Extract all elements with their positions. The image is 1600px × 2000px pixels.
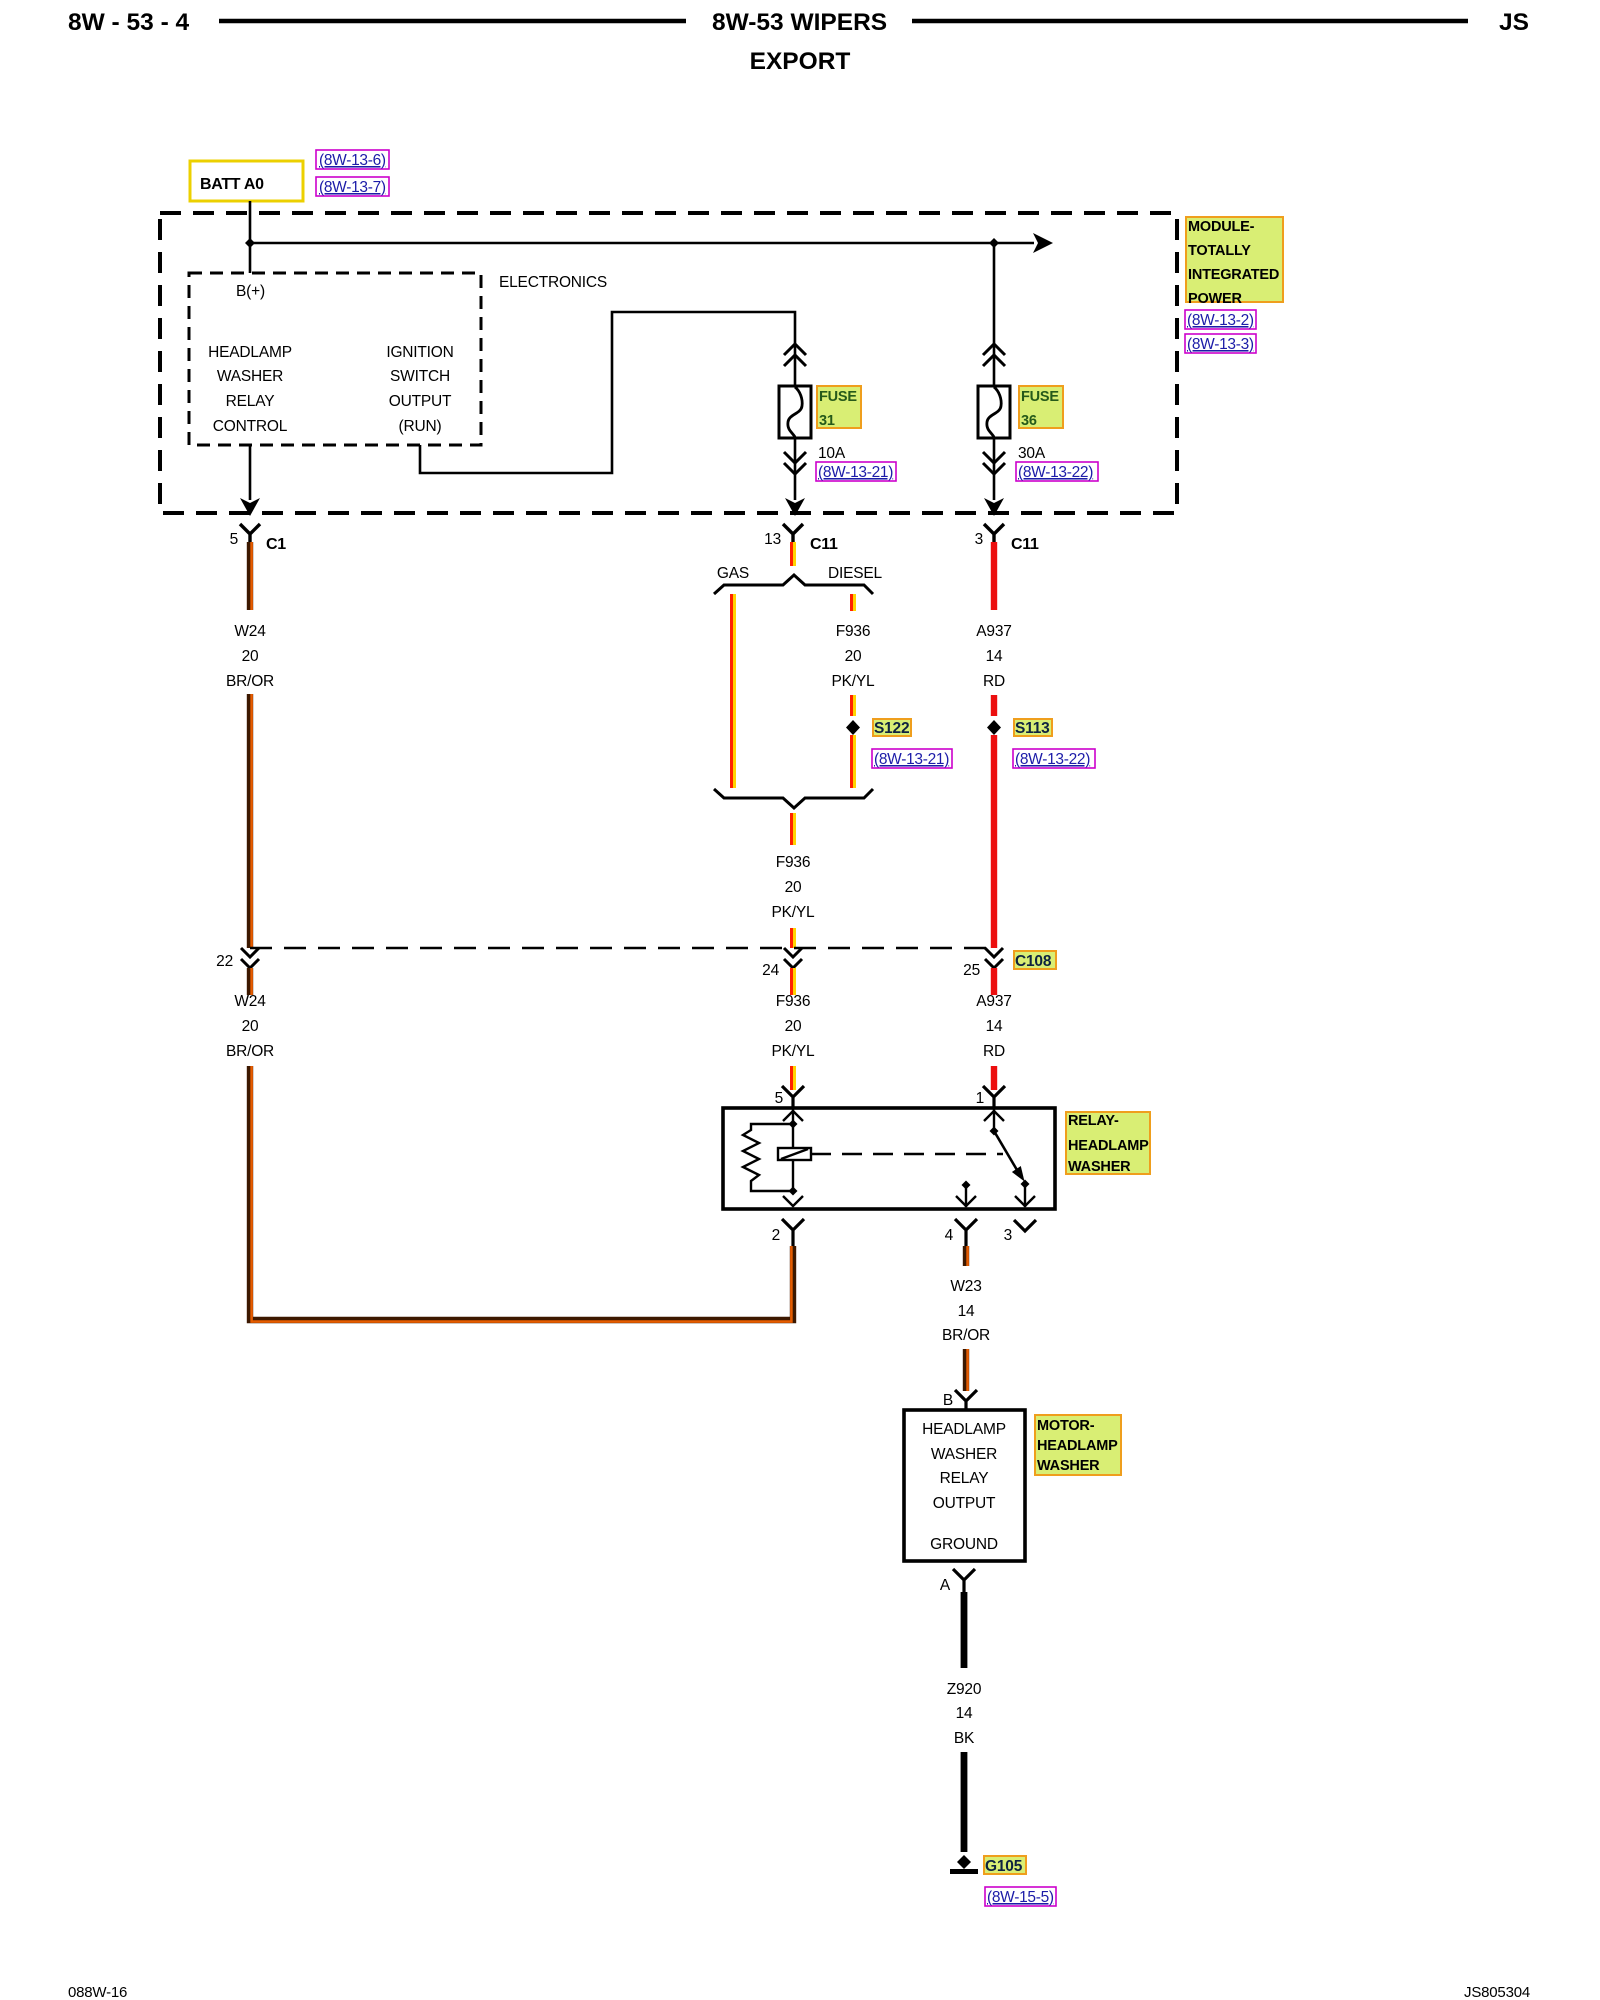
svg-text:(8W-13-21): (8W-13-21) xyxy=(874,751,949,768)
footer drawing number xyxy=(1464,1984,1530,2000)
relay pin 1 connector xyxy=(976,1086,1005,1108)
svg-text:PK/YL: PK/YL xyxy=(772,1043,816,1060)
wire gas branch xyxy=(732,594,735,788)
svg-text:A937: A937 xyxy=(976,623,1011,640)
connector C108 pin 25 xyxy=(963,948,1003,979)
svg-text:WASHER: WASHER xyxy=(931,1446,997,1463)
svg-text:PK/YL: PK/YL xyxy=(772,904,816,921)
wire F936 below merge xyxy=(792,813,795,845)
brace split gas/diesel xyxy=(714,575,873,594)
svg-text:ELECTRONICS: ELECTRONICS xyxy=(499,274,607,291)
svg-text:30A: 30A xyxy=(1018,445,1046,462)
svg-text:INTEGRATED: INTEGRATED xyxy=(1188,267,1279,283)
svg-text:20: 20 xyxy=(785,879,802,896)
relay pin3 internal wire xyxy=(1015,1184,1035,1207)
relay pin 3 connector xyxy=(1004,1220,1036,1244)
relay pin 4 connector xyxy=(945,1219,977,1246)
svg-text:088W-16: 088W-16 xyxy=(68,1984,127,2000)
wire ignition switch output to fuse 31 xyxy=(420,312,795,473)
label A937 14 RD upper xyxy=(976,623,1011,690)
svg-text:GAS: GAS xyxy=(717,565,749,582)
svg-text:1: 1 xyxy=(976,1090,984,1107)
svg-text:(RUN): (RUN) xyxy=(399,418,442,435)
header rule left xyxy=(219,19,686,24)
node relay pin3 xyxy=(1021,1180,1030,1189)
label C108 xyxy=(1014,951,1056,970)
label A937 14 RD lower xyxy=(976,993,1011,1060)
label F936 20 PK/YL mid xyxy=(772,854,816,921)
svg-text:(8W-13-21): (8W-13-21) xyxy=(818,464,893,481)
arrowhead fuse31 exit xyxy=(785,498,805,516)
svg-text:OUTPUT: OUTPUT xyxy=(933,1495,996,1512)
header title right xyxy=(1499,9,1529,36)
relay coil branch wire xyxy=(783,1108,803,1206)
svg-text:A937: A937 xyxy=(976,993,1011,1010)
svg-text:WASHER: WASHER xyxy=(1068,1159,1131,1175)
wire A937 long segment xyxy=(991,735,997,948)
motor headlamp washer box xyxy=(904,1410,1025,1561)
svg-text:PK/YL: PK/YL xyxy=(832,673,876,690)
svg-text:F936: F936 xyxy=(776,854,811,871)
wire to fuse 36 xyxy=(993,243,996,386)
svg-text:20: 20 xyxy=(242,648,259,665)
wire Z920 upper xyxy=(961,1592,968,1668)
node battery bus junction xyxy=(245,238,255,248)
svg-text:5: 5 xyxy=(230,531,238,548)
svg-text:3: 3 xyxy=(975,531,983,548)
svg-text:20: 20 xyxy=(845,648,862,665)
wire battery bus arrow xyxy=(250,233,1053,253)
node relay coil top xyxy=(789,1120,798,1129)
svg-text:W24: W24 xyxy=(234,623,266,640)
link 8W-13-7 xyxy=(316,177,389,196)
wire W23 lower xyxy=(966,1349,968,1391)
connector C108 dashed line xyxy=(250,947,997,950)
label FUSE 31 xyxy=(817,386,861,429)
link 8W-13-22 xyxy=(1016,462,1098,481)
svg-text:5: 5 xyxy=(775,1090,783,1107)
wire fuse 31 lower xyxy=(794,438,797,500)
svg-text:B: B xyxy=(943,1392,953,1409)
svg-text:C11: C11 xyxy=(1011,536,1039,553)
electronics dashed box xyxy=(189,273,481,445)
wire A937 below C108 xyxy=(991,968,997,995)
wire W23 upper xyxy=(966,1246,968,1266)
svg-text:F936: F936 xyxy=(776,993,811,1010)
wire Z920 lower xyxy=(961,1752,968,1852)
svg-text:RELAY: RELAY xyxy=(226,393,275,410)
svg-text:10A: 10A xyxy=(818,445,846,462)
svg-text:FUSE: FUSE xyxy=(1021,389,1059,405)
label headlamp washer relay control xyxy=(208,344,292,435)
wire diesel branch stub xyxy=(852,594,855,611)
wire F936 to relay pin 5 xyxy=(792,1066,795,1090)
relay pin 2 connector xyxy=(772,1219,804,1246)
relay switch common wire xyxy=(984,1108,1004,1131)
header subtitle xyxy=(750,48,851,75)
svg-text:BK: BK xyxy=(954,1730,975,1747)
svg-text:8W-53 WIPERS: 8W-53 WIPERS xyxy=(712,9,887,36)
svg-text:3: 3 xyxy=(1004,1227,1012,1244)
link 8W-13-6 xyxy=(316,150,389,169)
svg-text:(8W-13-7): (8W-13-7) xyxy=(319,179,386,196)
wire A937 above splice xyxy=(991,695,997,716)
splice S122 xyxy=(846,719,911,737)
splice S113 xyxy=(987,719,1052,737)
header title left xyxy=(68,9,190,36)
svg-text:14: 14 xyxy=(956,1705,973,1722)
svg-text:C11: C11 xyxy=(810,536,838,553)
connector C11 pin 3 xyxy=(975,524,1039,553)
wire W24 upper segment xyxy=(250,542,252,610)
svg-text:2: 2 xyxy=(772,1227,780,1244)
wire A937 to relay pin 1 xyxy=(991,1066,997,1090)
relay headlamp washer box xyxy=(723,1108,1055,1209)
footer sheet number xyxy=(68,1984,127,2000)
label ELECTRONICS xyxy=(499,274,607,291)
relay pin 5 connector xyxy=(775,1086,804,1108)
wire A937 upper segment xyxy=(991,542,997,610)
header title center xyxy=(712,9,887,36)
svg-text:(8W-15-5): (8W-15-5) xyxy=(987,1889,1054,1906)
label Z920 14 BK xyxy=(947,1681,982,1747)
label W24 20 BR/OR lower xyxy=(226,993,274,1060)
resistor relay suppression xyxy=(743,1124,793,1191)
label W23 14 BR/OR xyxy=(942,1278,990,1344)
node fuse36 branch junction xyxy=(989,238,999,248)
svg-text:DIESEL: DIESEL xyxy=(828,565,883,582)
svg-text:JS805304: JS805304 xyxy=(1464,1984,1530,2000)
connector C108 pin 24 xyxy=(762,948,802,979)
relay coil symbol xyxy=(778,1148,811,1160)
svg-text:20: 20 xyxy=(242,1018,259,1035)
fuse 36 top chevrons xyxy=(983,344,1005,366)
wire diesel below splice xyxy=(852,735,855,788)
svg-text:W23: W23 xyxy=(950,1278,981,1295)
svg-text:8W - 53 - 4: 8W - 53 - 4 xyxy=(68,9,190,36)
label F936 20 PK/YL lower xyxy=(772,993,816,1060)
svg-text:BR/OR: BR/OR xyxy=(226,673,274,690)
label headlamp washer relay output ground xyxy=(922,1421,1006,1553)
brace merge gas/diesel xyxy=(714,789,873,808)
link 8W-13-21 splice xyxy=(872,749,952,768)
svg-text:HEADLAMP: HEADLAMP xyxy=(1068,1138,1149,1154)
connector C11 pin 13 xyxy=(764,524,838,553)
label DIESEL xyxy=(828,565,883,582)
link 8W-15-5 xyxy=(985,1887,1056,1906)
svg-text:25: 25 xyxy=(963,962,980,979)
svg-text:MODULE-: MODULE- xyxy=(1188,219,1255,235)
svg-text:20: 20 xyxy=(785,1018,802,1035)
relay switch blade xyxy=(994,1131,1025,1182)
svg-text:MOTOR-: MOTOR- xyxy=(1037,1418,1095,1434)
link 8W-13-2 xyxy=(1185,310,1256,329)
svg-text:(8W-13-2): (8W-13-2) xyxy=(1187,312,1254,329)
svg-text:RELAY: RELAY xyxy=(940,1470,989,1487)
label FUSE 36 xyxy=(1019,386,1063,429)
svg-text:(8W-13-3): (8W-13-3) xyxy=(1187,336,1254,353)
label F936 20 PK/YL diesel xyxy=(832,623,876,690)
svg-text:14: 14 xyxy=(986,1018,1003,1035)
wire W24 long segment xyxy=(250,694,252,948)
svg-text:C1: C1 xyxy=(266,536,286,553)
pin label B(+) xyxy=(236,283,265,300)
svg-text:A: A xyxy=(940,1577,951,1594)
svg-text:Z920: Z920 xyxy=(947,1681,982,1698)
svg-text:13: 13 xyxy=(764,531,781,548)
label module totally integrated power xyxy=(1186,217,1283,307)
label W24 20 BR/OR upper xyxy=(226,623,274,690)
svg-text:W24: W24 xyxy=(234,993,266,1010)
wire F936 to C108 xyxy=(792,928,795,948)
label relay headlamp washer xyxy=(1066,1112,1150,1175)
connector C108 pin 22 chevrons xyxy=(216,948,259,970)
battery feed box BATT A0 xyxy=(190,161,303,201)
label G105 xyxy=(984,1856,1026,1875)
ground G105 symbol xyxy=(950,1855,978,1872)
relay pin4 internal wire xyxy=(956,1185,976,1207)
svg-text:S122: S122 xyxy=(874,720,909,737)
wire W24 below C108 xyxy=(250,968,252,995)
fuse 36 bottom chevrons xyxy=(983,452,1005,474)
link 8W-13-3 xyxy=(1185,334,1256,353)
arrowhead fuse36 exit xyxy=(984,498,1004,516)
svg-text:HEADLAMP: HEADLAMP xyxy=(1037,1438,1118,1454)
svg-text:(8W-13-22): (8W-13-22) xyxy=(1018,464,1093,481)
svg-text:JS: JS xyxy=(1499,9,1529,36)
link 8W-13-22 splice xyxy=(1013,749,1095,768)
svg-text:POWER: POWER xyxy=(1188,291,1243,307)
fuse F36 xyxy=(978,386,1010,438)
svg-text:WASHER: WASHER xyxy=(217,368,283,385)
connector C1 pin 5 xyxy=(230,524,287,553)
label ignition switch output run xyxy=(386,344,453,435)
svg-text:WASHER: WASHER xyxy=(1037,1458,1100,1474)
wire F936 stub below C11 xyxy=(792,542,795,566)
module TIPM dashed outline xyxy=(160,213,1177,513)
svg-text:(8W-13-22): (8W-13-22) xyxy=(1015,751,1090,768)
wire diesel above splice xyxy=(852,695,855,716)
node relay pin4 xyxy=(962,1181,971,1190)
fuse 31 top chevrons xyxy=(784,344,806,366)
svg-text:(8W-13-6): (8W-13-6) xyxy=(319,152,386,169)
wire fuse 36 lower xyxy=(993,438,996,500)
svg-text:BR/OR: BR/OR xyxy=(226,1043,274,1060)
svg-text:G105: G105 xyxy=(985,1858,1023,1875)
fuse 31 bottom chevrons xyxy=(784,452,806,474)
svg-text:RELAY-: RELAY- xyxy=(1068,1113,1119,1129)
svg-text:14: 14 xyxy=(986,648,1003,665)
svg-text:CONTROL: CONTROL xyxy=(213,418,288,435)
svg-text:OUTPUT: OUTPUT xyxy=(389,393,452,410)
svg-text:36: 36 xyxy=(1021,413,1037,429)
label 10A xyxy=(818,445,846,462)
svg-text:BR/OR: BR/OR xyxy=(942,1327,990,1344)
svg-text:FUSE: FUSE xyxy=(819,389,857,405)
svg-text:HEADLAMP: HEADLAMP xyxy=(208,344,292,361)
svg-text:B(+): B(+) xyxy=(236,283,265,300)
svg-text:S113: S113 xyxy=(1015,720,1050,737)
wire relay control output xyxy=(240,445,260,516)
link 8W-13-21 xyxy=(816,462,896,481)
svg-text:4: 4 xyxy=(945,1227,954,1244)
svg-text:GROUND: GROUND xyxy=(930,1536,998,1553)
svg-text:31: 31 xyxy=(819,413,835,429)
wire battery to electronics xyxy=(249,201,252,273)
wire F936 below C108 xyxy=(792,968,795,995)
label 30A xyxy=(1018,445,1046,462)
svg-text:14: 14 xyxy=(958,1303,975,1320)
svg-text:EXPORT: EXPORT xyxy=(750,48,851,75)
wire W24 to relay pin 2 xyxy=(250,1066,793,1322)
relay actuation dashed link xyxy=(811,1153,1003,1156)
svg-text:SWITCH: SWITCH xyxy=(390,368,450,385)
connector motor pin A xyxy=(940,1569,975,1594)
svg-text:TOTALLY: TOTALLY xyxy=(1188,243,1251,259)
node relay coil bottom xyxy=(789,1187,798,1196)
fuse F31 xyxy=(779,386,811,438)
svg-text:24: 24 xyxy=(762,962,779,979)
label GAS xyxy=(717,565,749,582)
svg-text:RD: RD xyxy=(983,1043,1005,1060)
svg-text:BATT A0: BATT A0 xyxy=(200,176,264,193)
node relay switch pivot xyxy=(990,1127,999,1136)
svg-text:C108: C108 xyxy=(1015,953,1052,970)
label motor headlamp washer xyxy=(1035,1415,1121,1475)
svg-text:IGNITION: IGNITION xyxy=(386,344,453,361)
svg-text:HEADLAMP: HEADLAMP xyxy=(922,1421,1006,1438)
svg-text:RD: RD xyxy=(983,673,1005,690)
svg-text:F936: F936 xyxy=(836,623,871,640)
header rule right xyxy=(912,19,1468,24)
svg-text:22: 22 xyxy=(216,953,233,970)
connector motor pin B xyxy=(943,1390,977,1410)
